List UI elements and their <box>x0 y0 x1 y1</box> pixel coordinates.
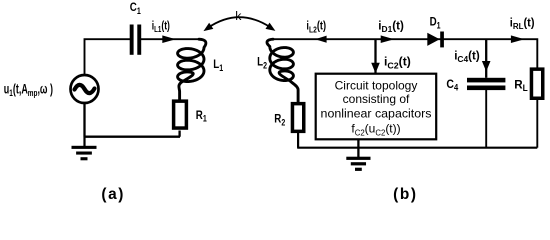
svg-text:Circuit topology: Circuit topology <box>335 78 418 92</box>
resistor RL <box>531 69 542 98</box>
current arrow iL1 <box>162 35 176 43</box>
ground right <box>346 140 370 171</box>
coupling arrow k <box>201 17 277 34</box>
wire source to C1 <box>85 39 131 75</box>
current arrow iC2 <box>371 63 380 74</box>
ground left <box>72 137 97 161</box>
svg-text:(a): (a) <box>101 186 125 203</box>
current arrow iL2 <box>315 36 327 43</box>
svg-text:k: k <box>235 9 242 23</box>
svg-text:nonlinear capacitors: nonlinear capacitors <box>321 107 432 121</box>
voltage source U1 <box>71 75 99 103</box>
capacitor C4 <box>467 78 505 90</box>
wire C1 to L1 <box>141 38 200 40</box>
wire branch to C4 <box>485 39 487 78</box>
inductor L1 <box>178 39 206 99</box>
wire top right <box>273 39 538 68</box>
current arrow iRL <box>511 35 525 43</box>
inductor L2 <box>267 39 298 102</box>
resistor R2 <box>292 104 303 132</box>
resistor R1 <box>174 101 187 128</box>
wire branch to box <box>374 39 376 73</box>
capacitor C1 <box>130 25 142 55</box>
wire bottom left <box>84 103 181 137</box>
current arrow iC4 <box>482 61 491 72</box>
wire C4 to bottom <box>485 90 487 148</box>
svg-text:(b): (b) <box>393 186 417 203</box>
diode D1 <box>427 32 444 48</box>
box nonlinear capacitors <box>316 74 437 140</box>
wire bottom right <box>297 132 537 148</box>
wire RL to bottom <box>536 99 538 148</box>
svg-text:consisting of: consisting of <box>343 92 410 106</box>
current arrow iD1 <box>381 35 395 43</box>
